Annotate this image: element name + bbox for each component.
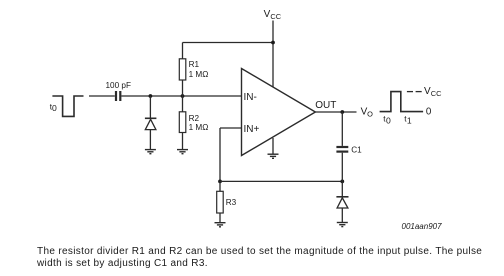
svg-text:C1: C1 [351, 146, 362, 155]
clamp diode D2 (right) [336, 181, 348, 222]
svg-text:R2: R2 [189, 114, 200, 123]
svg-text:IN+: IN+ [244, 124, 260, 135]
node: VCC junction [271, 41, 275, 45]
resistor R3 [217, 181, 224, 222]
svg-text:0: 0 [52, 103, 57, 113]
node: clamp diode junction [149, 94, 153, 98]
resistor R2 [179, 96, 186, 149]
svg-text:100 pF: 100 pF [106, 81, 132, 90]
dashed VCC level line [407, 91, 422, 93]
svg-text:CC: CC [270, 12, 281, 21]
capacitor 100 pF [116, 91, 120, 101]
wire capacitor to IN- [121, 95, 241, 97]
wire input to capacitor [89, 95, 115, 97]
node: C1/diode junction [340, 180, 344, 184]
svg-text:0: 0 [426, 106, 432, 117]
pin label IN+ [244, 124, 260, 135]
svg-text:CC: CC [431, 89, 442, 98]
wire output [315, 111, 356, 113]
clamp diode D1 (left) [145, 118, 157, 149]
capacitor C1 [336, 112, 348, 181]
label R1 / 1 MOhm [189, 60, 209, 79]
svg-text:IN-: IN- [244, 92, 257, 103]
label 0 (waveform level) [426, 106, 432, 117]
ground (op-amp) [268, 154, 279, 158]
svg-text:R1: R1 [189, 60, 200, 69]
ground (R3) [215, 223, 226, 227]
input pulse waveform [52, 96, 83, 116]
caption text [36, 246, 482, 269]
op-amp U1 (comparator triangle) [242, 69, 316, 156]
ground (right diode) [337, 223, 348, 227]
label R2 / 1 MOhm [189, 114, 209, 132]
svg-text:1 MΩ: 1 MΩ [189, 70, 209, 79]
label C1 [351, 146, 362, 155]
pin label IN- [244, 92, 257, 103]
label t0 (input) [50, 102, 57, 113]
svg-text:The resistor divider R1 and R2: The resistor divider R1 and R2 can be us… [37, 246, 482, 257]
value label 100 pF [106, 81, 132, 90]
wire node to left clamp diode [149, 96, 151, 118]
label VO [361, 107, 374, 119]
node: R3 junction [218, 180, 222, 184]
svg-text:1: 1 [407, 116, 412, 126]
svg-text:1 MΩ: 1 MΩ [189, 123, 209, 132]
ground (left diode) [145, 150, 156, 154]
label R3 [226, 198, 237, 207]
wire bottom bus [220, 180, 342, 182]
wire IN+ to node [220, 128, 242, 181]
figure id 001aan907 [402, 222, 443, 231]
wire VCC stem to op-amp power pin [272, 21, 274, 89]
node: output junction [340, 110, 344, 114]
svg-text:R3: R3 [226, 198, 237, 207]
svg-text:width is set by adjusting C1 a: width is set by adjusting C1 and R3. [36, 258, 208, 269]
label VCC (waveform level) [424, 86, 442, 98]
wire op-amp ground pin [272, 138, 274, 154]
svg-text:O: O [367, 110, 373, 119]
ground (R2) [177, 150, 188, 154]
wire top rail R1 to VCC [183, 42, 274, 44]
svg-text:0: 0 [386, 116, 391, 126]
resistor R1 [179, 43, 186, 97]
pin label OUT [315, 100, 336, 111]
node: R1/R2 divider junction [181, 94, 185, 98]
output pulse waveform [380, 92, 424, 112]
svg-text:OUT: OUT [315, 100, 336, 111]
svg-text:001aan907: 001aan907 [402, 222, 443, 231]
label t1 (waveform) [404, 115, 412, 126]
VCC supply label [264, 9, 282, 21]
label t0 (waveform) [383, 115, 391, 126]
